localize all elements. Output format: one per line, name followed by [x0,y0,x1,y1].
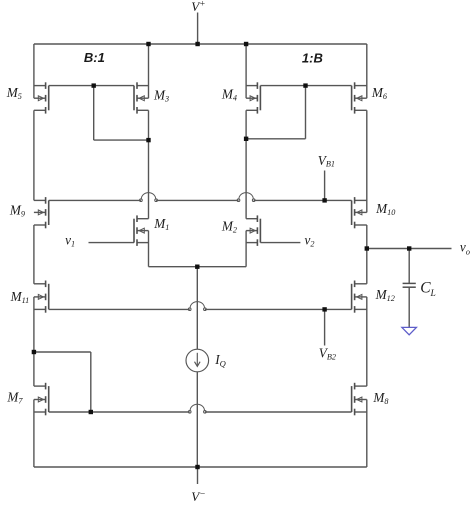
wire VB1 bias wire segment 1 (M9 gate) [49,199,141,201]
wire v1 input wire to M1 gate [89,242,135,244]
transistor M3 [134,82,149,113]
svg-text:1:B: 1:B [302,50,323,65]
junction dot bias link / M7-M8 gate wire [89,410,93,414]
capacitor CL [403,283,416,287]
junction dot left column / bias link [32,350,36,354]
wire left column: V+ to M5 source/bulk [33,44,35,98]
wire V+ stub [197,13,199,45]
wire bottom rail V- [34,466,367,468]
transistor M11 [34,281,49,313]
junction dot top rail / V+ stub [195,42,199,46]
wire right column: M12 bulk/source to M8 drain [366,297,368,386]
wire right diode-connect drop [305,86,307,139]
wire M11-M12 gate wire segment 1 [49,308,190,310]
transistor M2 [246,215,260,246]
wire left diode-connect drop [93,86,95,141]
transistor M4 [246,82,260,113]
wire right column: M8 bulk/source to V- rail [366,400,368,468]
wire right column: V+ to M6 source/bulk [366,44,368,98]
junction dot output node at CL branch [407,246,411,250]
wire left column: M5 drain to M9 source [33,110,35,200]
wire left column: M7 bulk/source to V- rail [33,400,35,468]
junction dot top rail / M3 source [146,42,150,46]
wire M11-M12 gate wire segment 2 [205,308,352,310]
wire VB1 bias wire segment 3 (M10 gate) [254,199,352,201]
transistor M8 [352,383,367,416]
junction dot right diode connect / M4 drain [244,137,248,141]
wire VB1 stub [324,171,326,201]
wire M4 source column from V+ rail [245,44,247,98]
transistor M10 [352,197,367,228]
wire bias link vertical to gate wire [90,352,92,412]
wire bias link horizontal from left column [34,351,91,353]
junction dot output node at right column [365,246,369,250]
wire M7-M8 gate wire segment 2 [205,411,352,413]
current source IQ [186,349,209,372]
wire M4-M6 gate tie [260,85,351,87]
wire M3 drain to M1 drain column [148,110,150,218]
transistor M12 [352,281,367,313]
wire crossover hop VB1 over M3-M1 column [140,193,158,202]
transistor M7 [34,383,49,416]
wire tail wire joining M1 and M2 sources [149,266,247,268]
wire v2 input wire to M2 gate [260,242,300,244]
junction dot left diode connect / M3 drain [146,138,150,142]
wire right diode-connect horizontal to M4 drain [246,138,305,140]
wire left diode-connect horizontal to M3 drain [94,139,149,141]
transistor M1 [134,215,149,246]
wire right column: M6 drain to M10 source [366,110,368,212]
junction dot bottom rail / V- stub [195,465,199,469]
wire CL top wire [408,249,410,284]
wire M1 bulk/source down to tail [148,231,150,267]
transistor M9 [34,197,49,228]
wire VB2 stub [324,309,326,345]
wire crossover hop M11-M12 gate wire over tail column [188,302,206,311]
transistor M5 [34,82,49,113]
wire CL bottom wire to ground [408,287,410,327]
wire tail down to IQ [196,267,198,350]
wire M3 source column from V+ rail [148,44,150,98]
svg-text:B:1: B:1 [84,50,105,65]
wire VB1 bias wire segment 2 [156,199,238,201]
wire M2 bulk/source down to tail [245,231,247,267]
wire M4 drain to M2 drain column [245,110,247,218]
wire left column: M11 bulk/source to M7 drain [33,297,35,386]
junction dot VB1 / bias wire [322,198,326,202]
junction dot right gate tie / diode drop [303,83,307,87]
wire IQ to V- rail [196,372,198,467]
wire top rail V+ [34,43,367,45]
wire left column: M9 drain to M11 drain [33,225,35,284]
wire M5-M3 gate tie [49,85,134,87]
ground [402,327,417,334]
wire V- stub [197,467,199,484]
junction dot tail node [195,265,199,269]
junction dot top rail / M4 source [244,42,248,46]
junction dot left gate tie / diode drop [92,83,96,87]
junction dot VB2 / gate wire [322,307,326,311]
wire crossover hop VB1 over M4-M2 column [237,193,255,202]
wire right column: M10 drain to M12 drain through output node [366,225,368,284]
wire output wire vo [367,248,452,250]
wire crossover hop M7-M8 gate wire over IQ column [188,404,206,413]
wire M7-M8 gate wire segment 1 [49,411,190,413]
transistor M6 [352,82,367,113]
